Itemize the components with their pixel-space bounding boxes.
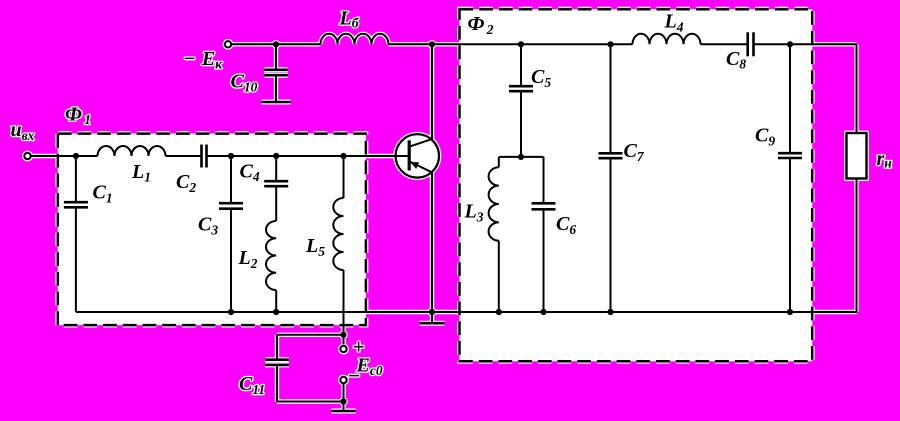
label minus xyxy=(348,364,361,388)
wire emitter xyxy=(431,172,433,312)
junction C3 top xyxy=(228,153,234,159)
junction collector node xyxy=(429,41,435,47)
junction C7 bottom xyxy=(607,309,613,315)
label F2 xyxy=(468,13,494,37)
wire L4 to C8 xyxy=(701,43,748,45)
wire L2 to rail xyxy=(275,290,277,312)
junction C9 top xyxy=(787,41,793,47)
capacitor C3 xyxy=(219,156,243,312)
junction C9 bottom xyxy=(787,309,793,315)
label -Ek xyxy=(184,48,224,72)
label C2 xyxy=(176,171,196,195)
terminal Ec0 plus xyxy=(340,346,346,352)
wire C11 bottom xyxy=(277,401,344,403)
label L3 xyxy=(464,201,484,225)
junction Ec0 gnd xyxy=(340,398,346,404)
junction L3 bottom xyxy=(496,309,502,315)
wire C8 to rn xyxy=(754,43,857,45)
label L4 xyxy=(664,11,684,35)
label Ec0 xyxy=(356,354,383,378)
capacitor C8 xyxy=(748,32,754,56)
terminal Ec0 minus xyxy=(340,377,346,383)
label C9 xyxy=(755,125,775,149)
label plus xyxy=(353,335,365,359)
ground below C10 xyxy=(262,75,291,102)
junction C3 bottom xyxy=(228,309,234,315)
wire ground rail xyxy=(76,311,857,313)
terminal u_vx xyxy=(24,153,30,159)
wire Ec0 to gnd xyxy=(343,384,345,402)
wire C2 to base xyxy=(207,155,366,157)
capacitor C11 xyxy=(265,335,289,402)
wire collector xyxy=(431,44,433,140)
transistor VT1 xyxy=(365,134,439,177)
label C5 xyxy=(531,66,551,90)
wire -Ek to Lb xyxy=(232,43,321,45)
label C4 xyxy=(240,160,260,184)
junction C6 bottom xyxy=(540,309,546,315)
junction C4 top xyxy=(273,153,279,159)
inductor L1 xyxy=(98,146,166,156)
label rn xyxy=(877,148,893,170)
label F1 xyxy=(65,103,91,127)
resistor rn xyxy=(847,133,867,179)
junction C5 top xyxy=(518,41,524,47)
wire L5 top xyxy=(343,156,345,198)
label C3 xyxy=(198,214,218,238)
inductor Lb xyxy=(321,34,389,45)
block F1 dashed box xyxy=(58,134,366,326)
junction C11 top node xyxy=(340,332,346,338)
junction L5 top xyxy=(340,153,346,159)
wire rn top xyxy=(856,44,858,133)
label u_vx xyxy=(11,119,35,143)
wire L5 to Ec0 xyxy=(343,270,345,344)
label C8 xyxy=(726,48,746,72)
label L5 xyxy=(305,235,325,259)
capacitor C7 xyxy=(599,44,623,312)
inductor L4 xyxy=(633,34,701,45)
capacitor C5 xyxy=(509,44,533,157)
label L1 xyxy=(131,161,151,185)
capacitor C10 xyxy=(264,44,288,75)
junction C4 bottom xyxy=(273,309,279,315)
inductor L5 xyxy=(333,198,343,270)
label L2 xyxy=(238,247,258,271)
capacitor C1 xyxy=(64,156,88,312)
junction C7 top xyxy=(607,41,613,47)
junction C5 bottom xyxy=(518,154,524,160)
terminal -Ek xyxy=(225,41,231,47)
capacitor C2 xyxy=(202,145,207,168)
junction C10 top xyxy=(273,41,279,47)
capacitor C6 xyxy=(532,157,556,312)
label C1 xyxy=(93,182,113,206)
label C10 xyxy=(231,71,258,95)
wire input xyxy=(32,155,98,157)
block F2 dashed box xyxy=(460,9,813,361)
capacitor C4 xyxy=(264,156,288,221)
junction emitter-ground xyxy=(429,309,435,315)
label C7 xyxy=(624,140,645,164)
wire L3 to rail xyxy=(498,241,500,312)
ground at emitter xyxy=(420,312,445,323)
wire C11 top xyxy=(277,334,344,336)
wire L1 to C2 xyxy=(166,155,202,157)
wire L3C6 top xyxy=(499,156,544,158)
label C6 xyxy=(556,213,576,237)
wire Lb to F2 xyxy=(389,43,633,45)
capacitor C9 xyxy=(778,44,802,312)
junction C1 top xyxy=(73,153,79,159)
inductor L3 xyxy=(489,167,499,241)
ground below Ec0 xyxy=(331,402,356,412)
label C11 xyxy=(239,373,265,397)
wire rn bottom xyxy=(856,179,858,313)
label Lb xyxy=(339,8,360,31)
wire L3 top xyxy=(498,157,500,167)
inductor L2 xyxy=(266,221,276,290)
